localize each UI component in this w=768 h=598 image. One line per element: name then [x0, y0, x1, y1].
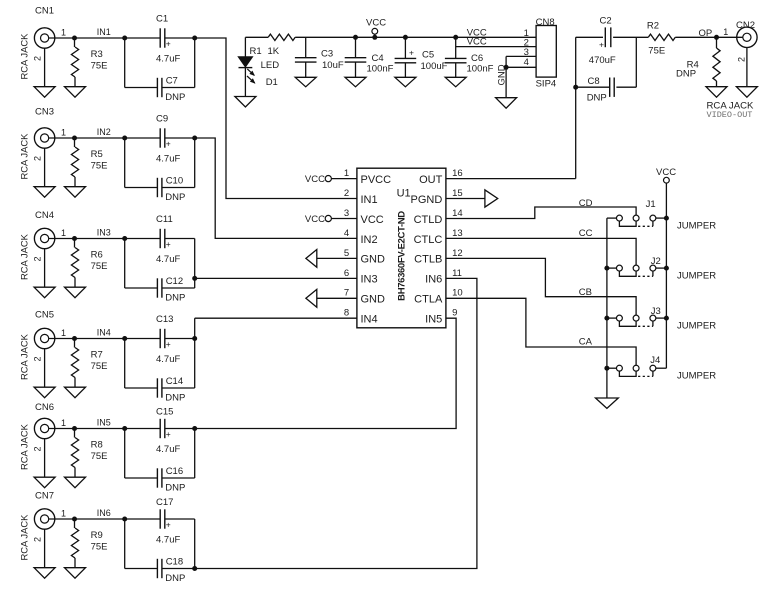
- svg-text:J1: J1: [646, 199, 656, 210]
- svg-text:1: 1: [344, 168, 349, 179]
- svg-text:75E: 75E: [91, 451, 108, 462]
- svg-text:R6: R6: [91, 250, 103, 261]
- svg-text:IN1: IN1: [361, 194, 378, 206]
- svg-text:1: 1: [61, 418, 66, 428]
- svg-text:DNP: DNP: [165, 292, 185, 303]
- svg-text:9: 9: [452, 308, 457, 319]
- svg-text:11: 11: [452, 268, 462, 279]
- svg-text:2: 2: [33, 356, 43, 361]
- svg-text:C16: C16: [166, 466, 183, 477]
- svg-text:VCC: VCC: [656, 167, 676, 178]
- svg-text:RCA JACK: RCA JACK: [19, 233, 30, 280]
- svg-text:DNP: DNP: [165, 482, 185, 493]
- svg-text:R5: R5: [91, 149, 103, 160]
- svg-text:4.7uF: 4.7uF: [156, 154, 180, 165]
- svg-text:75E: 75E: [91, 541, 108, 552]
- svg-text:C1: C1: [156, 13, 168, 24]
- svg-text:4.7uF: 4.7uF: [156, 254, 180, 265]
- svg-text:8: 8: [344, 308, 349, 319]
- svg-text:DNP: DNP: [587, 92, 607, 103]
- svg-text:RCA JACK: RCA JACK: [19, 333, 30, 380]
- svg-text:GND: GND: [497, 64, 508, 85]
- svg-text:4.7uF: 4.7uF: [156, 354, 180, 365]
- svg-text:100uF: 100uF: [421, 61, 448, 72]
- svg-text:C6: C6: [471, 53, 483, 64]
- svg-text:RCA JACK: RCA JACK: [19, 423, 30, 470]
- svg-text:IN2: IN2: [97, 127, 111, 137]
- svg-text:1: 1: [61, 509, 66, 519]
- svg-text:C17: C17: [156, 497, 173, 508]
- svg-text:CD: CD: [579, 198, 593, 209]
- svg-text:C4: C4: [372, 53, 384, 64]
- svg-text:2: 2: [33, 56, 43, 61]
- svg-text:IN1: IN1: [97, 27, 111, 37]
- svg-text:CN3: CN3: [35, 107, 54, 118]
- svg-text:1: 1: [61, 228, 66, 238]
- svg-text:470uF: 470uF: [589, 55, 616, 66]
- svg-text:CN6: CN6: [35, 402, 54, 413]
- svg-text:CN5: CN5: [35, 310, 54, 321]
- svg-text:C18: C18: [166, 557, 183, 568]
- svg-text:12: 12: [452, 248, 463, 259]
- svg-text:R7: R7: [91, 350, 103, 361]
- svg-text:2: 2: [33, 156, 43, 161]
- svg-text:13: 13: [452, 228, 463, 239]
- svg-text:+: +: [166, 520, 171, 530]
- svg-text:RCA JACK: RCA JACK: [19, 514, 30, 561]
- svg-text:CN7: CN7: [35, 491, 54, 502]
- svg-text:1: 1: [61, 328, 66, 338]
- svg-text:6: 6: [344, 268, 349, 279]
- svg-text:GND: GND: [361, 294, 386, 306]
- svg-text:C7: C7: [166, 76, 178, 87]
- svg-text:2: 2: [33, 537, 43, 542]
- svg-text:C14: C14: [166, 376, 183, 387]
- svg-text:C3: C3: [321, 49, 333, 60]
- svg-text:CA: CA: [579, 336, 593, 347]
- svg-text:IN5: IN5: [97, 418, 111, 428]
- svg-text:IN6: IN6: [97, 508, 111, 518]
- svg-text:3: 3: [344, 208, 349, 219]
- svg-text:CN4: CN4: [35, 210, 54, 221]
- svg-text:PGND: PGND: [411, 194, 443, 206]
- svg-text:+: +: [166, 339, 171, 349]
- svg-text:+: +: [166, 139, 171, 149]
- svg-text:SIP4: SIP4: [536, 79, 557, 90]
- svg-text:+: +: [599, 39, 604, 49]
- svg-text:CTLA: CTLA: [414, 294, 443, 306]
- svg-text:16: 16: [452, 168, 463, 179]
- svg-text:100nF: 100nF: [367, 64, 394, 75]
- svg-text:4.7uF: 4.7uF: [156, 54, 180, 65]
- svg-text:C12: C12: [166, 276, 183, 287]
- svg-text:JUMPER: JUMPER: [677, 220, 716, 231]
- svg-text:1: 1: [61, 28, 66, 38]
- svg-text:CTLD: CTLD: [414, 214, 443, 226]
- svg-text:DNP: DNP: [165, 192, 185, 203]
- svg-text:PVCC: PVCC: [361, 174, 392, 186]
- svg-text:C15: C15: [156, 407, 173, 418]
- svg-text:2: 2: [33, 256, 43, 261]
- svg-text:1: 1: [61, 128, 66, 138]
- svg-text:IN5: IN5: [425, 314, 442, 326]
- svg-text:J3: J3: [651, 306, 661, 317]
- svg-text:LED: LED: [261, 60, 280, 71]
- svg-text:R1: R1: [250, 46, 262, 57]
- svg-text:C11: C11: [156, 214, 173, 225]
- svg-text:75E: 75E: [91, 261, 108, 272]
- svg-text:4: 4: [344, 228, 349, 239]
- svg-text:GND: GND: [361, 254, 386, 266]
- svg-text:R8: R8: [91, 440, 103, 451]
- svg-text:RCA JACK: RCA JACK: [19, 133, 30, 180]
- svg-text:VCC: VCC: [305, 174, 325, 185]
- svg-text:CN2: CN2: [736, 20, 755, 31]
- svg-text:RCA JACK: RCA JACK: [19, 33, 30, 80]
- svg-text:1: 1: [723, 27, 728, 37]
- svg-text:IN2: IN2: [361, 234, 378, 246]
- svg-text:R2: R2: [647, 21, 659, 32]
- svg-text:14: 14: [452, 208, 463, 219]
- svg-text:OP: OP: [699, 28, 713, 39]
- svg-text:VCC: VCC: [361, 214, 384, 226]
- svg-text:CC: CC: [579, 228, 593, 239]
- svg-text:CB: CB: [579, 287, 592, 298]
- svg-text:JUMPER: JUMPER: [677, 320, 716, 331]
- svg-text:IN4: IN4: [97, 328, 111, 338]
- svg-text:+: +: [409, 48, 414, 58]
- svg-text:OUT: OUT: [419, 174, 443, 186]
- svg-text:DNP: DNP: [165, 392, 185, 403]
- svg-text:R3: R3: [91, 49, 103, 60]
- svg-text:75E: 75E: [91, 60, 108, 71]
- svg-text:15: 15: [452, 188, 463, 199]
- svg-text:CTLC: CTLC: [414, 234, 443, 246]
- svg-text:C13: C13: [156, 314, 173, 325]
- svg-text:10: 10: [452, 288, 463, 299]
- svg-text:2: 2: [33, 446, 43, 451]
- svg-text:4.7uF: 4.7uF: [156, 535, 180, 546]
- svg-text:7: 7: [344, 288, 349, 299]
- svg-text:2: 2: [736, 57, 746, 62]
- svg-text:D1: D1: [266, 77, 278, 88]
- svg-text:4: 4: [524, 57, 529, 68]
- svg-text:IN3: IN3: [361, 274, 378, 286]
- svg-text:VIDEO-OUT: VIDEO-OUT: [707, 110, 753, 120]
- svg-text:1K: 1K: [268, 46, 280, 57]
- svg-text:C2: C2: [600, 16, 612, 27]
- svg-text:10uF: 10uF: [322, 60, 344, 71]
- svg-text:JUMPER: JUMPER: [677, 371, 716, 382]
- svg-text:2: 2: [344, 188, 349, 199]
- svg-text:75E: 75E: [648, 46, 665, 57]
- svg-text:J4: J4: [650, 355, 660, 366]
- svg-text:C8: C8: [588, 76, 600, 87]
- svg-text:C9: C9: [156, 113, 168, 124]
- svg-text:75E: 75E: [91, 160, 108, 171]
- svg-text:5: 5: [344, 248, 349, 259]
- svg-text:R9: R9: [91, 530, 103, 541]
- svg-text:J2: J2: [651, 256, 661, 267]
- svg-text:VCC: VCC: [467, 37, 487, 48]
- svg-text:CTLB: CTLB: [414, 254, 442, 266]
- svg-text:IN6: IN6: [425, 274, 442, 286]
- svg-text:VCC: VCC: [305, 214, 325, 225]
- svg-text:+: +: [166, 39, 171, 49]
- svg-text:JUMPER: JUMPER: [677, 270, 716, 281]
- svg-text:IN4: IN4: [361, 314, 378, 326]
- svg-text:DNP: DNP: [165, 573, 185, 584]
- svg-text:4.7uF: 4.7uF: [156, 444, 180, 455]
- svg-text:U1: U1: [397, 188, 411, 200]
- svg-text:C10: C10: [166, 176, 183, 187]
- svg-text:100nF: 100nF: [467, 64, 494, 75]
- svg-text:75E: 75E: [91, 361, 108, 372]
- svg-text:CN1: CN1: [35, 6, 54, 17]
- svg-text:C5: C5: [422, 50, 434, 61]
- svg-text:+: +: [166, 429, 171, 439]
- svg-text:IN3: IN3: [97, 228, 111, 238]
- svg-text:BH76360FV-E2CT-ND: BH76360FV-E2CT-ND: [397, 211, 408, 301]
- svg-text:DNP: DNP: [676, 69, 696, 80]
- svg-text:+: +: [166, 239, 171, 249]
- svg-text:DNP: DNP: [165, 92, 185, 103]
- svg-text:CN8: CN8: [536, 17, 555, 28]
- svg-text:VCC: VCC: [366, 18, 386, 29]
